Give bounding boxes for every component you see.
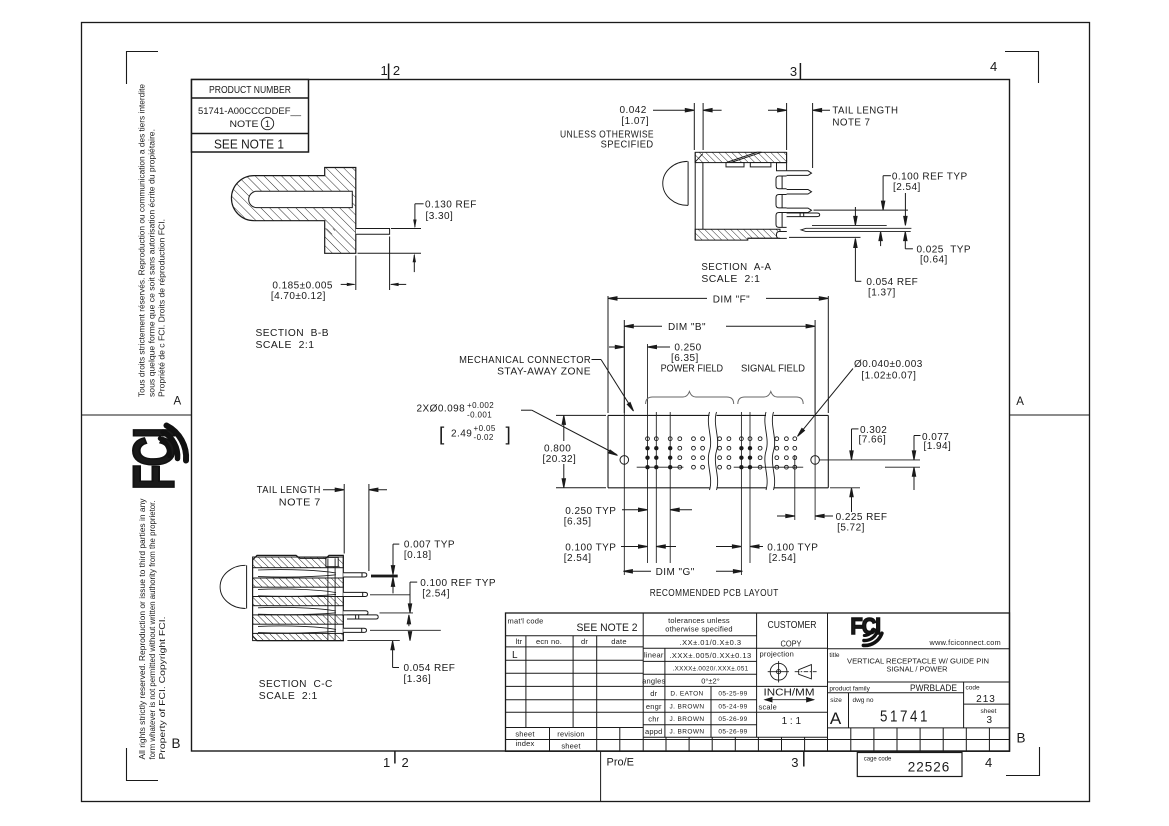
fold mark top-right [1005, 52, 1039, 84]
arrows near pin4 [409, 632, 411, 639]
svg-text:0.054 REF: 0.054 REF [866, 277, 918, 288]
dimension 0.054 REF (C-C) [392, 642, 394, 667]
svg-text:cage code: cage code [864, 757, 892, 763]
svg-text:0°±2°: 0°±2° [701, 677, 719, 686]
svg-text:Pro/E: Pro/E [607, 757, 635, 769]
svg-text:[6.35]: [6.35] [564, 517, 592, 528]
revision table columns [525, 636, 527, 728]
dimension 0.130 REF [415, 203, 424, 205]
inner right wall [327, 558, 329, 640]
svg-text:code: code [966, 684, 980, 691]
svg-text:+0.05: +0.05 [474, 424, 496, 433]
svg-text:SIGNAL / POWER: SIGNAL / POWER [887, 665, 948, 674]
svg-text:[2.54]: [2.54] [769, 553, 797, 564]
svg-text:J. BROWN: J. BROWN [670, 716, 705, 723]
svg-text:MECHANICAL CONNECTOR: MECHANICAL CONNECTOR [459, 355, 591, 366]
top right white block [326, 557, 338, 566]
break wavy lines [708, 412, 774, 490]
0.007 thick contact preload bar [371, 575, 398, 578]
tolerance rows [643, 635, 756, 637]
svg-text:[: [ [439, 425, 445, 446]
svg-text:0.250 TYP: 0.250 TYP [565, 506, 616, 517]
svg-text:scale: scale [759, 703, 778, 712]
svg-text:SECTION C-C: SECTION C-C [259, 679, 333, 690]
inch/mm double arrow [765, 698, 814, 702]
svg-text:[6.35]: [6.35] [671, 353, 699, 364]
svg-text:0.054 REF: 0.054 REF [404, 663, 456, 674]
svg-text:SCALE 2:1: SCALE 2:1 [256, 340, 315, 351]
svg-text:B: B [172, 736, 181, 751]
svg-text:3: 3 [790, 64, 797, 79]
svg-text:[1.36]: [1.36] [404, 674, 432, 685]
svg-text:Property of FCI. Copyright FC: Property of FCI. Copyright FCI. [158, 617, 167, 760]
dimension DIM B [623, 320, 625, 413]
svg-text:sheet: sheet [981, 708, 997, 715]
thin solder tail [812, 224, 887, 226]
svg-text:[3.30]: [3.30] [426, 211, 454, 222]
body outline [253, 555, 344, 640]
svg-text:dwg no: dwg no [853, 697, 874, 704]
svg-text:www.fciconnect.com: www.fciconnect.com [929, 638, 1002, 647]
svg-text:[7.66]: [7.66] [859, 434, 887, 445]
svg-text:SEE NOTE 2: SEE NOTE 2 [577, 622, 638, 634]
dimension 0.054 REF (A-A) [789, 236, 861, 238]
dimension 0.042 [560, 103, 971, 298]
svg-text:PWRBLADE: PWRBLADE [910, 683, 957, 694]
svg-text:3: 3 [791, 755, 798, 770]
svg-text:DIM "F": DIM "F" [713, 294, 750, 305]
svg-text:J. BROWN: J. BROWN [670, 704, 705, 711]
svg-text:1: 1 [383, 755, 390, 770]
svg-text:SCALE 2:1: SCALE 2:1 [259, 691, 318, 702]
pin 1 [343, 573, 367, 577]
projection symbols [768, 661, 817, 682]
recommended pcb layout outline with break lines [608, 415, 828, 487]
svg-text:[1.07]: [1.07] [621, 116, 649, 127]
mat'l code / see note row [506, 635, 644, 637]
svg-text:1: 1 [381, 63, 388, 78]
svg-text:SEE NOTE 1: SEE NOTE 1 [214, 137, 284, 152]
main vertical dividers [642, 613, 644, 751]
margin separator lines [82, 414, 192, 416]
svg-text:0.800: 0.800 [544, 444, 571, 455]
svg-text:2.49: 2.49 [451, 429, 472, 440]
svg-text:.XXXX±.0020/.XXX±.051: .XXXX±.0020/.XXX±.051 [673, 666, 749, 673]
right wall blocks [777, 163, 787, 171]
dimension 0.077 [914, 435, 921, 437]
svg-text:[4.70±0.12]: [4.70±0.12] [271, 291, 326, 302]
latch tabs under band [726, 163, 744, 167]
bottom sheet-index strip [506, 739, 1010, 741]
svg-text:+0.002: +0.002 [467, 401, 494, 410]
svg-text:NOTE 7: NOTE 7 [832, 118, 870, 129]
svg-text:engr: engr [646, 702, 662, 711]
cage code box [857, 753, 962, 777]
guide holes [620, 456, 629, 465]
svg-text:1 : 1: 1 : 1 [782, 716, 802, 727]
hatched ribs [253, 557, 344, 568]
dimension 0.225 REF [777, 515, 793, 517]
dimension 0.100 REF TYP (A-A) [883, 175, 891, 177]
svg-text:3: 3 [987, 715, 993, 726]
left margin FCI logo (rotated) [121, 429, 186, 490]
top hatched band [695, 152, 786, 162]
svg-text:A: A [830, 709, 842, 728]
svg-text:otherwise specified: otherwise specified [665, 625, 733, 634]
bottom hatched band [695, 229, 780, 240]
TITLEBLOCK [506, 613, 1010, 802]
svg-text:SPECIFIED: SPECIFIED [601, 139, 654, 150]
dimension 0.100 TYP right [716, 546, 740, 548]
svg-text:0.185±0.005: 0.185±0.005 [272, 281, 333, 292]
dimension 0.007 TYP [393, 543, 399, 545]
dome contact [663, 161, 688, 205]
svg-text:form whatever is not permitted: form whatever is not permitted without w… [148, 501, 157, 760]
dome contact [220, 565, 246, 608]
svg-text:sous quelque forme que ce soit: sous quelque forme que ce soit sans auto… [148, 129, 157, 397]
svg-text:Ø0.040±0.003: Ø0.040±0.003 [854, 359, 923, 370]
dimension 0.025 TYP [904, 233, 906, 249]
svg-text:-0.02: -0.02 [474, 433, 494, 442]
svg-text:PRODUCT NUMBER: PRODUCT NUMBER [209, 85, 291, 96]
section C-C receptacle cross-section [220, 555, 398, 640]
svg-text:RECOMMENDED PCB LAYOUT: RECOMMENDED PCB LAYOUT [650, 588, 779, 599]
svg-text:[5.72]: [5.72] [837, 523, 865, 534]
svg-text:ecn no.: ecn no. [536, 637, 562, 646]
svg-text:NOTE: NOTE [230, 119, 259, 130]
svg-text:[1.02±0.07]: [1.02±0.07] [861, 371, 916, 382]
svg-text:dr: dr [650, 689, 657, 698]
svg-text:revision: revision [557, 730, 584, 739]
svg-text:0.042: 0.042 [620, 105, 647, 116]
svg-text:TAIL LENGTH: TAIL LENGTH [832, 106, 898, 117]
svg-text:0.225 REF: 0.225 REF [836, 512, 888, 523]
svg-text:[20.32]: [20.32] [543, 454, 577, 465]
svg-text:4: 4 [990, 59, 997, 74]
zone ticks and labels top [172, 59, 1026, 770]
svg-text:All rights strictly reserved.: All rights strictly reserved. Reproducti… [138, 499, 147, 760]
svg-text:51741: 51741 [880, 709, 930, 726]
center/extension lines [624, 330, 920, 575]
pin D press-fit tail [787, 213, 820, 217]
left margin legal text (English, rotated) [138, 499, 167, 760]
svg-text:]: ] [506, 425, 511, 446]
svg-text:.XXX±.005/0.XX±0.13: .XXX±.005/0.XX±0.13 [669, 651, 751, 660]
svg-text:SECTION A-A: SECTION A-A [701, 262, 771, 273]
svg-text:.XX±.01/0.X±0.3: .XX±.01/0.X±0.3 [679, 638, 741, 647]
svg-text:mat'l code: mat'l code [508, 617, 544, 626]
FCI logo in title block [851, 612, 881, 639]
svg-text:05-26-99: 05-26-99 [718, 716, 747, 723]
below-frame vertical [600, 751, 602, 801]
pin 2 [343, 592, 367, 596]
svg-text:COPY: COPY [781, 640, 803, 649]
svg-text:appd: appd [645, 727, 663, 736]
svg-text:sheet: sheet [515, 730, 535, 739]
svg-text:INCH/MM: INCH/MM [764, 687, 815, 699]
svg-text:1: 1 [265, 119, 270, 129]
svg-text:SECTION B-B: SECTION B-B [256, 328, 330, 339]
svg-text:angles: angles [642, 677, 665, 686]
svg-text:product family: product family [829, 685, 870, 692]
section A-A connector cross-section [663, 152, 912, 240]
staggered arrows on tail lines [854, 207, 856, 224]
svg-text:[1.37]: [1.37] [868, 287, 896, 298]
svg-text:POWER FIELD: POWER FIELD [661, 363, 724, 374]
dimension 0.250 [609, 346, 623, 348]
svg-text:0.100 REF TYP: 0.100 REF TYP [892, 171, 968, 182]
pin B [787, 190, 812, 195]
svg-text:05-24-99: 05-24-99 [718, 704, 747, 711]
product number box [192, 80, 309, 153]
svg-text:linear: linear [644, 651, 664, 660]
svg-text:B: B [1017, 731, 1026, 746]
svg-text:A: A [174, 396, 182, 408]
fold mark top-left [127, 52, 159, 85]
pcb tab plate [356, 229, 390, 235]
svg-text:SIGNAL FIELD: SIGNAL FIELD [741, 363, 805, 374]
svg-text:title: title [829, 652, 840, 659]
svg-text:A: A [1016, 396, 1024, 408]
svg-text:SCALE 2:1: SCALE 2:1 [701, 274, 760, 285]
svg-text:DIM "G": DIM "G" [656, 567, 695, 578]
contact springs in slots [258, 570, 336, 634]
extension lines right of pins [370, 594, 410, 596]
section B-B guide post cross-section [231, 168, 476, 352]
pin 4 [343, 628, 366, 632]
svg-text:[2.54]: [2.54] [893, 182, 921, 193]
svg-text:4: 4 [985, 755, 992, 770]
svg-text:-0.001: -0.001 [467, 410, 492, 419]
dimension 0.800 [556, 414, 606, 416]
left wall [694, 152, 696, 240]
svg-text:Propriété de c FCI. Droits de: Propriété de c FCI. Droits de réproducti… [158, 219, 167, 397]
svg-text:[0.18]: [0.18] [404, 550, 432, 561]
svg-text:index: index [516, 739, 535, 748]
svg-text:213: 213 [976, 694, 996, 705]
dimension DIM F [607, 296, 609, 413]
fold mark bottom-right [1006, 747, 1040, 776]
svg-text:D. EATON: D. EATON [670, 691, 703, 698]
circled note 1 [261, 117, 273, 129]
svg-text:dr: dr [581, 637, 588, 646]
left margin legal text (French, rotated) [138, 83, 167, 397]
fold mark bottom-left [127, 748, 159, 781]
svg-text:0.100 REF TYP: 0.100 REF TYP [420, 578, 496, 589]
pin 3 with press-fit tab [343, 611, 368, 615]
svg-text:sheet: sheet [561, 742, 581, 751]
svg-text:51741-A00CCCDDEF__: 51741-A00CCCDDEF__ [198, 106, 302, 117]
svg-text:CUSTOMER: CUSTOMER [768, 619, 817, 631]
svg-text:[2.54]: [2.54] [422, 588, 450, 599]
svg-text:0.130 REF: 0.130 REF [425, 200, 477, 211]
dimension 0.100 REF TYP (C-C) [410, 581, 417, 583]
svg-text:05-26-99: 05-26-99 [718, 729, 747, 736]
PCB hole grid [645, 437, 796, 470]
svg-text:J. BROWN: J. BROWN [670, 729, 705, 736]
svg-text:2XØ0.098: 2XØ0.098 [417, 404, 466, 415]
title block outline [506, 613, 1010, 751]
svg-text:projection: projection [760, 650, 795, 659]
svg-text:[2.54]: [2.54] [564, 553, 592, 564]
svg-text:22526: 22526 [908, 760, 951, 775]
svg-text:NOTE 7: NOTE 7 [279, 498, 321, 509]
svg-text:0.100 TYP: 0.100 TYP [767, 543, 818, 554]
svg-text:size: size [830, 697, 842, 704]
braces for power/signal fields [646, 392, 804, 405]
svg-text:[0.64]: [0.64] [920, 254, 948, 265]
svg-text:0.007 TYP: 0.007 TYP [404, 539, 455, 550]
main drawing frame [192, 80, 1010, 752]
svg-text:[1.94]: [1.94] [924, 441, 952, 452]
svg-text:0.100 TYP: 0.100 TYP [565, 543, 616, 554]
svg-text:2: 2 [402, 755, 409, 770]
svg-text:DIM "B": DIM "B" [668, 322, 706, 333]
right section rows [828, 648, 1010, 650]
dimension 0.302 [852, 428, 859, 430]
svg-text:TAIL LENGTH: TAIL LENGTH [257, 485, 321, 496]
svg-text:Tous droits strictement réserv: Tous droits strictement réservés. Reprod… [138, 83, 147, 397]
svg-text:chr: chr [648, 715, 659, 724]
dimension 0.185 [355, 256, 357, 291]
svg-text:tolerances unless: tolerances unless [668, 616, 730, 625]
dimension DIM G [625, 570, 651, 572]
pin C [787, 208, 812, 212]
pin A [787, 171, 812, 176]
revision table header row [506, 646, 644, 648]
svg-text:L: L [512, 650, 518, 661]
dimension TAIL LENGTH note 7 [768, 109, 785, 111]
svg-text:ltr: ltr [516, 637, 523, 646]
svg-text:STAY-AWAY ZONE: STAY-AWAY ZONE [497, 367, 591, 378]
svg-text:2: 2 [393, 63, 400, 78]
svg-text:date: date [611, 637, 626, 646]
svg-text:05-25-99: 05-25-99 [718, 691, 747, 698]
